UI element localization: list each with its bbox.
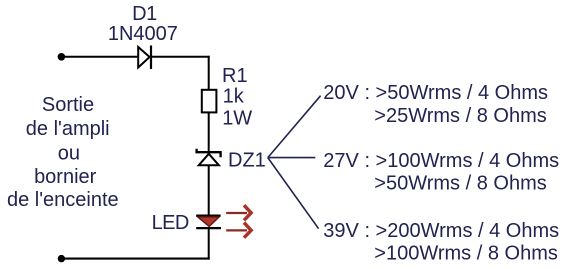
resistor R1 body bbox=[202, 90, 217, 113]
LED triangle (red) bbox=[198, 217, 219, 227]
wire: vertical down to R1 bbox=[208, 56, 210, 90]
svg-text:Sortie: Sortie bbox=[42, 94, 94, 116]
svg-text:DZ1: DZ1 bbox=[228, 149, 266, 171]
LED light arrow 2 shaft bbox=[226, 229, 247, 231]
wire: DZ1 to LED bbox=[208, 165, 210, 216]
svg-text:39V : >200Wrms / 4 Ohms: 39V : >200Wrms / 4 Ohms bbox=[323, 220, 559, 242]
svg-text:1N4007: 1N4007 bbox=[108, 23, 178, 45]
wire: D1 cathode to top-right corner bbox=[151, 56, 210, 58]
zener DZ1 cathode bar with bent tabs bbox=[197, 149, 221, 157]
wire: bottom horizontal to output dot bbox=[61, 258, 210, 260]
svg-text:R1: R1 bbox=[222, 65, 248, 87]
node A: input terminal dot (top left) bbox=[58, 53, 66, 61]
svg-text:20V : >50Wrms / 4 Ohms: 20V : >50Wrms / 4 Ohms bbox=[323, 82, 548, 104]
LED light arrow 1 head bbox=[244, 205, 251, 220]
diode D1 cathode bar bbox=[150, 46, 152, 70]
svg-text:>100Wrms / 8 Ohms: >100Wrms / 8 Ohms bbox=[374, 243, 558, 265]
svg-text:de l'enceinte: de l'enceinte bbox=[7, 189, 119, 211]
wire: top horizontal from input dot to D1 anode bbox=[61, 56, 138, 58]
LED cathode bar bbox=[196, 227, 221, 229]
zener DZ1 triangle bbox=[199, 154, 219, 166]
wire: LED to bottom corner bbox=[208, 229, 210, 260]
branch line to 20V bbox=[268, 96, 321, 158]
svg-text:bornier: bornier bbox=[34, 166, 97, 188]
svg-text:>50Wrms / 8 Ohms: >50Wrms / 8 Ohms bbox=[374, 173, 546, 195]
LED light arrow 2 head bbox=[244, 223, 251, 238]
node B: output terminal dot (bottom left) bbox=[58, 255, 65, 262]
branch line to 39V bbox=[268, 158, 319, 229]
svg-text:1k: 1k bbox=[223, 85, 245, 107]
svg-text:ou: ou bbox=[58, 142, 80, 164]
svg-text:de l'ampli: de l'ampli bbox=[26, 118, 110, 140]
svg-text:27V : >100Wrms / 4 Ohms: 27V : >100Wrms / 4 Ohms bbox=[323, 150, 559, 172]
svg-text:LED: LED bbox=[152, 212, 189, 234]
branch line to 27V bbox=[268, 157, 316, 159]
svg-text:>25Wrms / 8 Ohms: >25Wrms / 8 Ohms bbox=[374, 105, 546, 127]
svg-text:D1: D1 bbox=[132, 3, 157, 25]
wire: R1 bottom to DZ1 bbox=[208, 112, 210, 152]
svg-text:1W: 1W bbox=[222, 107, 252, 129]
diode D1 triangle bbox=[138, 47, 149, 68]
LED anode bar bbox=[196, 214, 220, 216]
LED light arrow 1 shaft bbox=[226, 212, 247, 214]
